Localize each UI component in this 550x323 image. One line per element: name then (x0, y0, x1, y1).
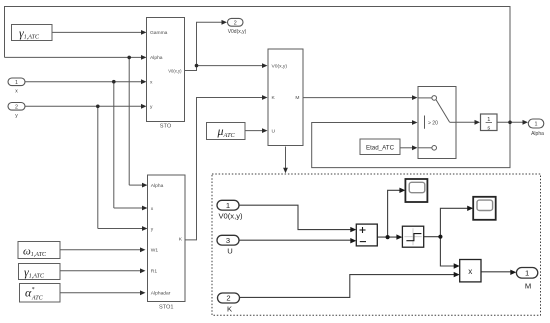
svg-text:Alpha: Alpha (531, 131, 544, 137)
svg-text:2: 2 (15, 104, 18, 110)
svg-text:V0(x,y): V0(x,y) (168, 68, 182, 73)
svg-text:V0(x,y): V0(x,y) (218, 212, 243, 221)
svg-text:2: 2 (234, 20, 237, 26)
svg-text:STO: STO (160, 124, 172, 130)
svg-text:1: 1 (226, 201, 230, 210)
svg-text:1: 1 (15, 80, 18, 86)
svg-text:Alpha: Alpha (151, 183, 164, 189)
svg-text:M: M (295, 95, 299, 101)
svg-text:s: s (487, 125, 490, 131)
svg-text:2: 2 (226, 294, 230, 303)
svg-text:> 20: > 20 (428, 121, 438, 127)
svg-text:R1: R1 (151, 269, 158, 275)
svg-text:V0d(x,y): V0d(x,y) (228, 29, 247, 35)
svg-text:Etad_ATC: Etad_ATC (366, 145, 395, 152)
svg-text:Gamma: Gamma (150, 30, 168, 36)
svg-text:STO1: STO1 (159, 305, 174, 311)
svg-text:U: U (227, 247, 232, 256)
svg-text:1: 1 (535, 122, 538, 128)
svg-text:1: 1 (525, 269, 529, 278)
svg-text:3: 3 (226, 236, 230, 245)
svg-text:V0(x,y): V0(x,y) (272, 63, 288, 69)
svg-text:K: K (227, 305, 232, 314)
svg-text:x: x (468, 267, 472, 276)
svg-text:W1: W1 (151, 248, 159, 254)
svg-text:Alphadar: Alphadar (151, 291, 171, 297)
svg-text:Alpha: Alpha (150, 55, 163, 61)
svg-text:U: U (272, 128, 276, 134)
svg-text:M: M (525, 282, 531, 291)
